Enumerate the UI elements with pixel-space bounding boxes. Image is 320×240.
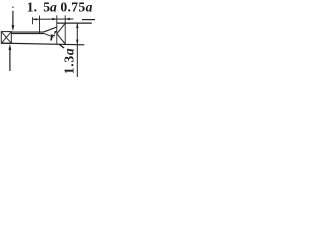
rising flank diagonal: [44, 27, 57, 32]
up arrow at bottom left: [9, 44, 12, 71]
dimension start tick: [32, 17, 34, 24]
svg-text:r: r: [50, 30, 55, 44]
plateau top line: [57, 22, 92, 24]
extra top right line: [82, 19, 95, 21]
box zigzag lower diagonal: [57, 34, 65, 44]
clamp block hatch X: [1, 32, 11, 44]
box left edge extension: [56, 15, 58, 44]
bar top upper line: [11, 31, 43, 33]
dim arrow right at x57: [52, 18, 57, 20]
dim arrow left at x65: [65, 18, 70, 20]
svg-text:1.3a: 1.3a: [62, 48, 77, 75]
extension line at x40: [39, 16, 41, 34]
bar bottom line: [1, 43, 84, 45]
falling diagonal to r label: [44, 34, 53, 38]
vertical dim arrow up: [76, 23, 78, 28]
dim arrow left at x31.5: [33, 18, 37, 20]
svg-text:0.75a: 0.75a: [60, 0, 92, 15]
box zigzag upper diagonal: [57, 23, 65, 33]
vertical dim arrow down: [76, 40, 78, 45]
clamp block: [1, 32, 11, 44]
dimension text 1.5a: [27, 0, 57, 15]
rotated dimension text 1.3a: [62, 48, 77, 75]
vertical dimension line 1.3a: [76, 23, 78, 77]
horizontal dimension line: [33, 18, 74, 20]
down arrow at left: [12, 7, 15, 32]
box right edge extension: [64, 15, 66, 44]
dimension text 0.75a: [60, 0, 92, 15]
radius label r: [50, 30, 55, 44]
stray diagonal mark: [59, 44, 64, 48]
bar top lower line: [11, 33, 44, 35]
r leader arrow: [54, 30, 57, 33]
